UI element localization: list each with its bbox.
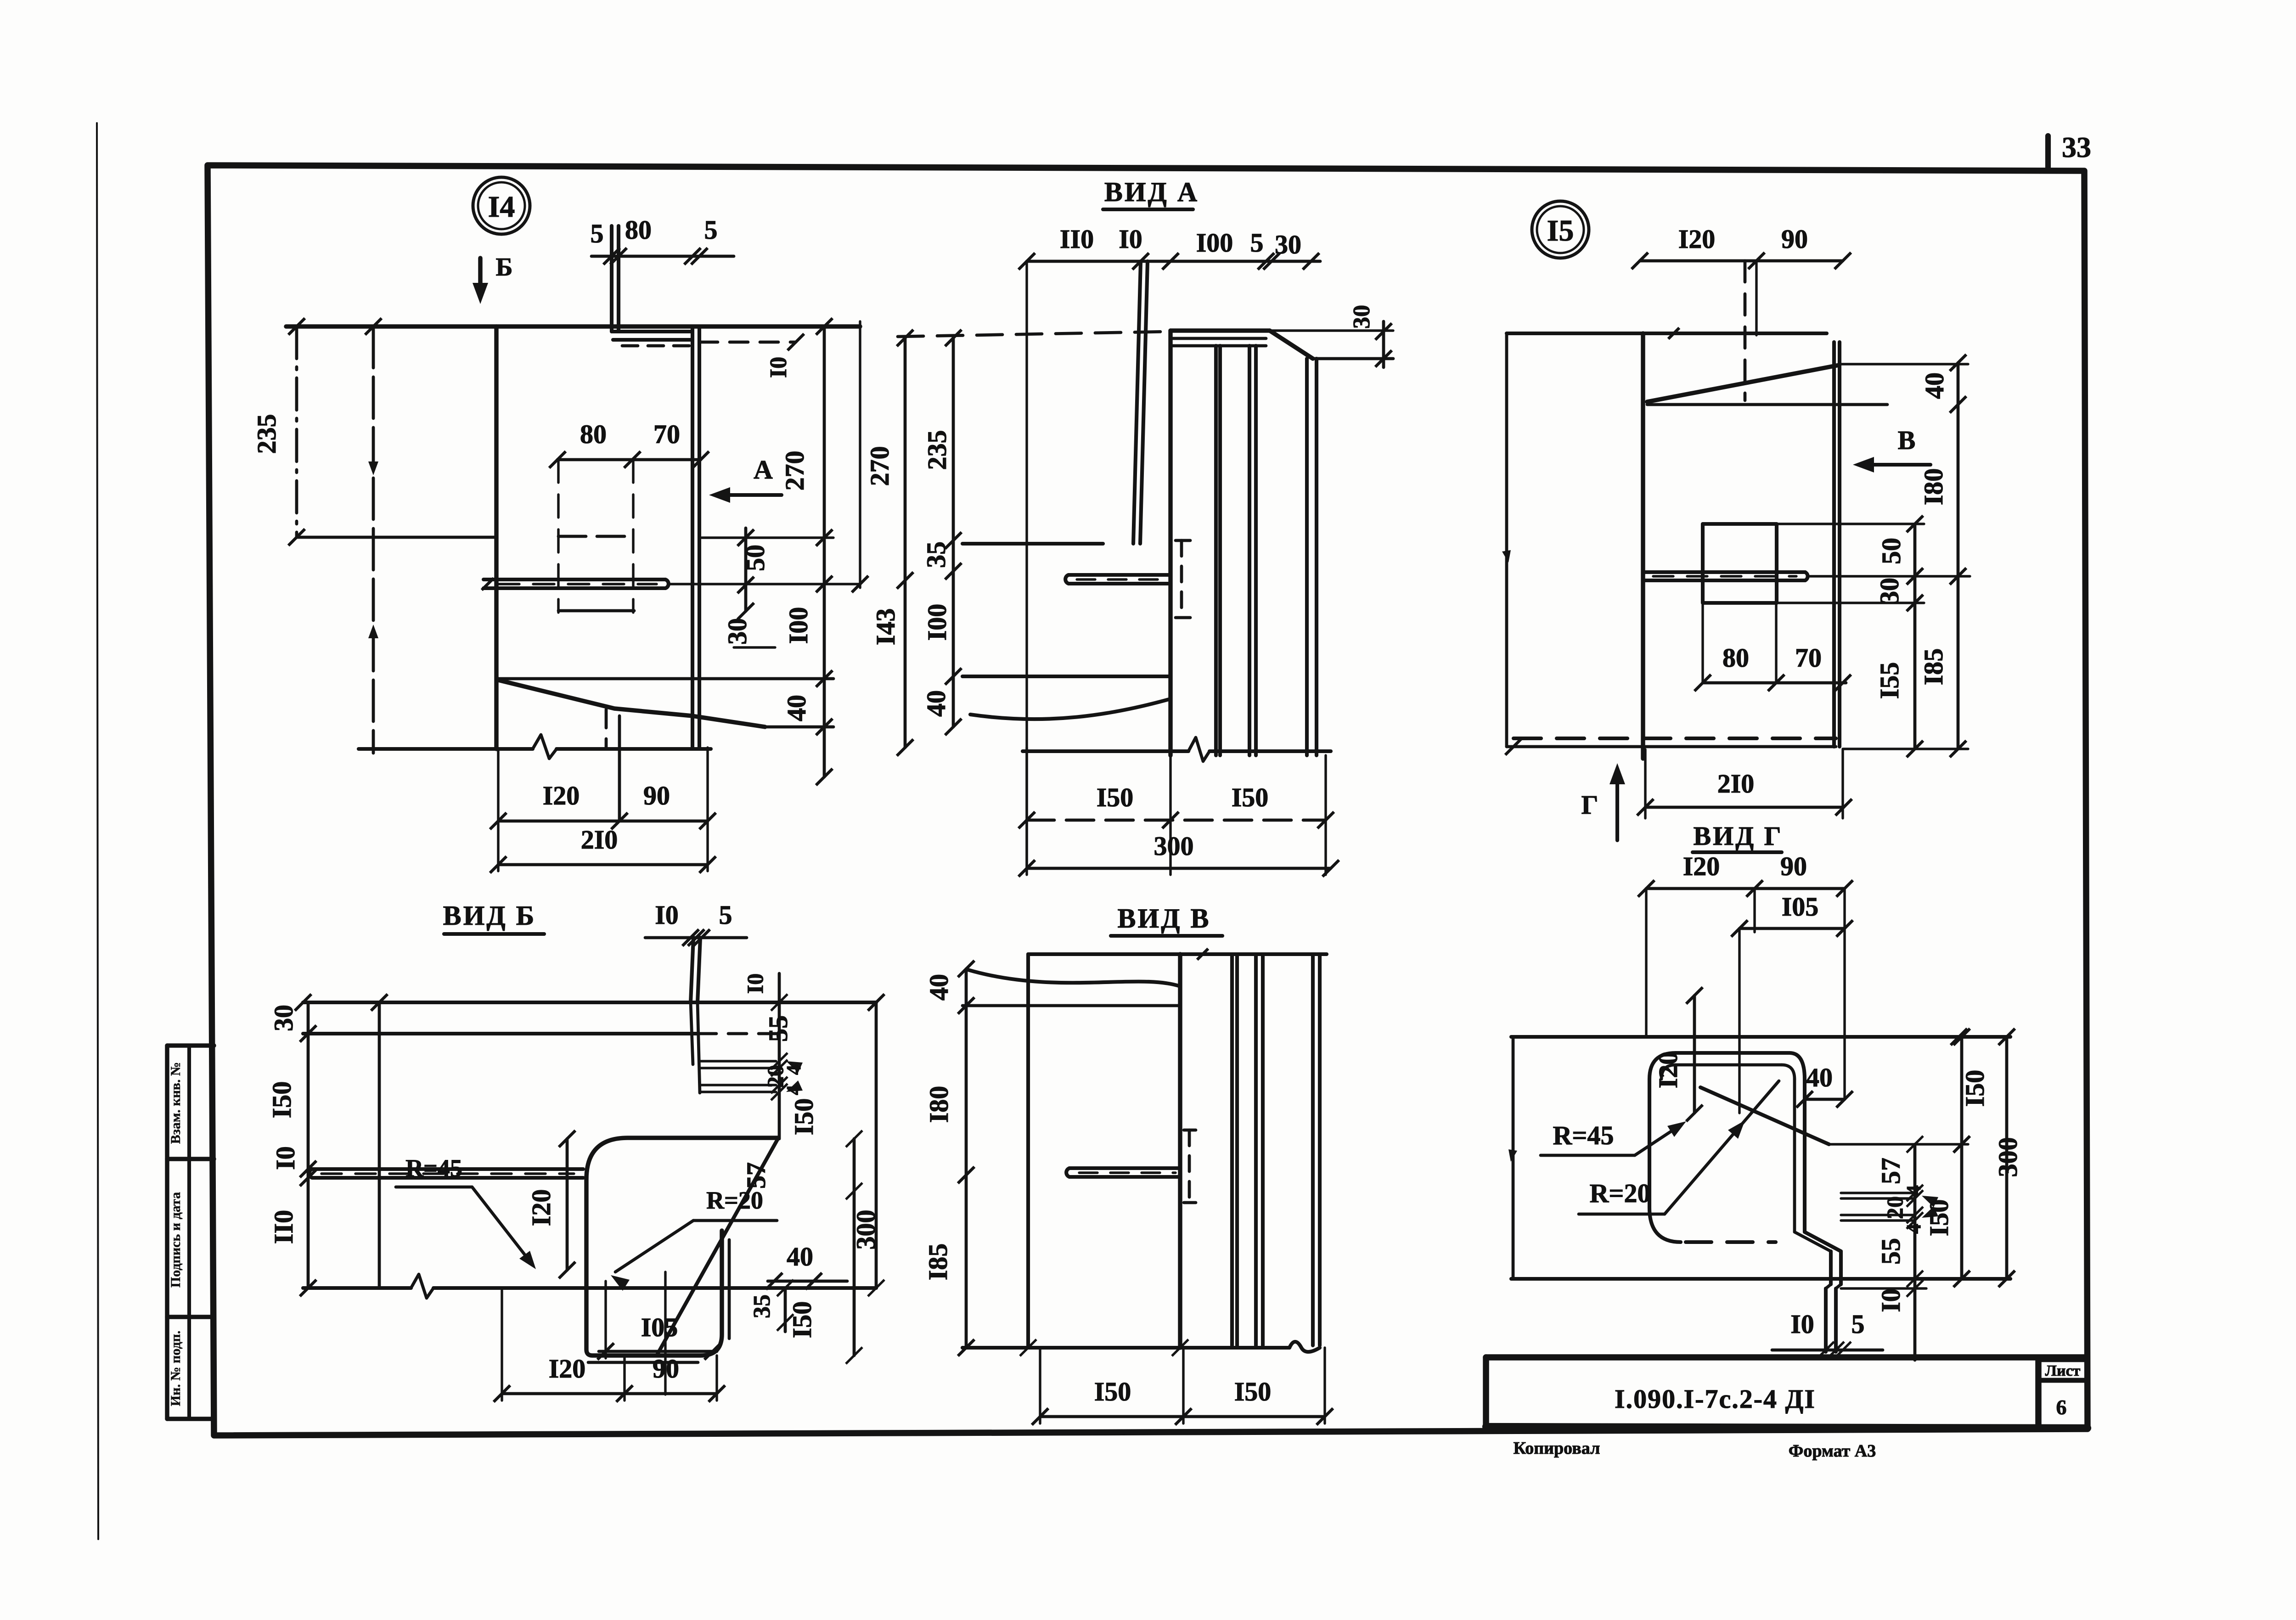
svg-text:Г: Г <box>1581 790 1598 820</box>
svg-text:I20: I20 <box>549 1354 586 1384</box>
part14 top tab vertical plate <box>610 226 613 332</box>
svg-text:5: 5 <box>1250 228 1264 258</box>
viewA channel flange 1 <box>1214 346 1218 755</box>
viewG tab jog at bottom edge <box>1826 1284 1831 1288</box>
svg-text:30: 30 <box>1275 230 1301 259</box>
svg-text:2I0: 2I0 <box>1717 769 1755 799</box>
viewB weld plates right <box>700 1060 776 1062</box>
pocket bottom extension <box>1777 602 1924 604</box>
dim line small stack right viewG <box>1913 1144 1917 1360</box>
svg-text:90: 90 <box>653 1354 679 1384</box>
viewB tab right edge double <box>728 1240 731 1339</box>
title block box <box>1483 1357 1489 1427</box>
svg-text:А: А <box>754 455 773 484</box>
viewA channel flange 2 <box>1248 346 1251 755</box>
view15 left edge <box>1641 333 1645 759</box>
viewB slope reference vertical <box>664 1272 666 1395</box>
dim 105 line viewG <box>1739 927 1845 930</box>
part14 left edge <box>494 326 498 749</box>
svg-text:I4: I4 <box>488 190 515 224</box>
view15 bottom baseline <box>1507 745 1836 748</box>
hidden pocket dashes viewA <box>1180 540 1183 618</box>
pocket extension dashed right <box>632 460 634 613</box>
viewV line under slope <box>962 1004 1180 1007</box>
extension right bottom view14 <box>706 748 709 871</box>
svg-text:I80: I80 <box>924 1086 954 1123</box>
balloon 14 circle <box>473 177 530 234</box>
viewG tab left edge <box>1648 1079 1651 1208</box>
dim line 50-30 inner right view14 <box>744 528 748 611</box>
viewG tab top-left arc <box>1649 1053 1676 1079</box>
svg-text:270: 270 <box>780 451 810 491</box>
view15 right edge double <box>1832 342 1836 747</box>
svg-text:R=45: R=45 <box>405 1154 462 1182</box>
svg-text:90: 90 <box>643 781 670 810</box>
viewV channel flange 1 <box>1230 954 1234 1345</box>
viewA lower edge horizontal <box>962 675 1171 678</box>
svg-text:50: 50 <box>1876 538 1906 564</box>
title block list cell <box>2035 1360 2042 1427</box>
part14 bottom baseline with break <box>359 747 533 751</box>
part14 right edge double line <box>691 326 694 748</box>
svg-text:Подпись и дата: Подпись и дата <box>168 1192 183 1288</box>
viewV channel flange 2 <box>1254 954 1258 1345</box>
dim line 40-180-185 view15 <box>1957 363 1960 749</box>
svg-text:40: 40 <box>1806 1063 1833 1092</box>
viewG dim extension verticals <box>1645 889 1647 1037</box>
svg-text:Взам. кнв. №: Взам. кнв. № <box>168 1062 183 1144</box>
svg-text:ВИД В: ВИД В <box>1118 903 1211 934</box>
weld plate arrow upper viewG <box>1922 1196 1938 1207</box>
viewB bottom baseline with break <box>303 1286 411 1290</box>
svg-text:I05: I05 <box>1782 892 1819 922</box>
part14 tab horizontal plate <box>612 330 692 333</box>
dim 10 tick right of tab <box>788 334 804 350</box>
dim 40 viewG <box>1805 1098 1845 1101</box>
svg-text:2I0: 2I0 <box>581 825 618 855</box>
title VID B underline <box>444 932 544 936</box>
svg-text:90: 90 <box>1781 224 1808 254</box>
viewB slope diagonal <box>657 1139 778 1356</box>
viewV right edge double <box>1311 954 1315 1345</box>
svg-text:I20: I20 <box>526 1189 556 1226</box>
anchor rod viewB <box>312 1167 583 1171</box>
viewV plate edge vertical <box>1178 954 1182 1348</box>
dim 235 bottom reference line <box>297 536 496 539</box>
left sidebar stamp boxes <box>165 1046 169 1419</box>
viewB tab bottom double line <box>588 1361 698 1364</box>
dim line 150-150 right viewG <box>1960 1037 1964 1279</box>
dim 30 bevel vertical <box>1382 321 1385 367</box>
viewG rounded tab top double <box>1676 1051 1790 1055</box>
part14 sloped cut <box>498 680 765 727</box>
svg-text:I0: I0 <box>1790 1309 1814 1339</box>
view direction arrow V <box>1858 463 1930 467</box>
svg-text:55: 55 <box>1876 1238 1906 1265</box>
svg-text:235: 235 <box>922 430 952 470</box>
dim 120-90 line view14 <box>498 820 708 823</box>
svg-text:R=45: R=45 <box>1553 1120 1614 1150</box>
dim 5-80-5 line <box>591 255 734 258</box>
svg-text:I0: I0 <box>1876 1288 1906 1312</box>
paper fold line at left margin <box>97 123 98 1539</box>
viewB tab plate double vertical <box>691 938 693 1002</box>
view15 line under slope <box>1647 403 1887 406</box>
viewA plate section lines <box>1171 337 1266 340</box>
view15 bottom hidden edge dashed <box>1514 737 1836 740</box>
dim 80-70 line view14 <box>557 458 701 461</box>
dim line 270-100-40 outer right view14 <box>823 326 826 777</box>
viewG step connector line <box>1829 1143 1968 1145</box>
rod center extension view15 <box>1810 575 1970 577</box>
anchor rod viewV <box>1069 1166 1180 1170</box>
viewA 110 extension full vertical <box>1025 261 1028 868</box>
center dashed vertical view15 <box>1744 261 1747 400</box>
svg-text:I00: I00 <box>783 607 813 644</box>
svg-text:I00: I00 <box>1196 228 1233 258</box>
svg-text:4: 4 <box>782 1065 805 1075</box>
dim 120-90 line view15 <box>1640 259 1843 263</box>
svg-text:40: 40 <box>787 1242 813 1271</box>
svg-text:300: 300 <box>851 1210 881 1250</box>
viewB second vertical <box>378 1002 381 1288</box>
svg-text:Копировал: Копировал <box>1514 1439 1600 1458</box>
viewA top edge right extension <box>1313 357 1393 360</box>
dim 120 rotated viewG <box>1693 996 1696 1113</box>
dim 300 line viewA <box>1027 867 1331 870</box>
dim line 235-35-100-40 inner left viewA <box>952 337 955 727</box>
connector slope apex to dim <box>1839 363 1968 365</box>
viewA right edge double <box>1305 359 1309 755</box>
anchor rod view14 <box>484 578 665 581</box>
viewA tab bottom edge <box>962 542 1103 546</box>
view15 sloped plate top <box>1647 365 1839 402</box>
svg-text:В: В <box>1898 425 1916 455</box>
dim 80-70 line view15 <box>1703 681 1846 685</box>
viewB tab verticals below edge <box>691 1002 693 1064</box>
svg-text:ВИД Б: ВИД Б <box>443 900 536 931</box>
dim line 300 right viewG <box>2005 1037 2009 1279</box>
viewB rounded tab outline <box>586 1138 778 1356</box>
svg-text:I0: I0 <box>655 900 679 930</box>
R45 leader viewG <box>1635 1125 1681 1155</box>
svg-text:I0: I0 <box>742 973 768 994</box>
viewV bottom edge with wave <box>962 1346 1289 1350</box>
svg-text:I0: I0 <box>765 357 792 378</box>
svg-text:5: 5 <box>1851 1309 1865 1339</box>
svg-text:I.090.I-7с.2-4 ДI: I.090.I-7с.2-4 ДI <box>1615 1384 1816 1414</box>
part14 tab hidden dashes <box>622 344 690 348</box>
dim 40 viewB <box>768 1280 847 1283</box>
extension left bottom view14 <box>497 749 499 871</box>
dim line 30-150-10-110 left viewB <box>307 1002 310 1288</box>
connector rect-top to dim <box>702 536 833 539</box>
viewG base plate left edge <box>1512 1037 1515 1279</box>
svg-text:33: 33 <box>2062 131 2091 163</box>
svg-text:270: 270 <box>865 446 895 486</box>
dim 10-5 line viewB <box>645 936 747 939</box>
viewB plate inner edge 30 <box>303 1032 698 1035</box>
viewA hidden centerline dashed <box>898 332 1171 337</box>
viewB top plate edge <box>303 1001 876 1004</box>
viewA plate left edge <box>1168 331 1172 755</box>
viewG weld plates right <box>1841 1192 1915 1194</box>
viewA bevel edge <box>1270 331 1313 359</box>
svg-text:57: 57 <box>741 1162 771 1189</box>
svg-text:30: 30 <box>269 1005 298 1031</box>
frame border <box>208 165 2088 1435</box>
hidden vertical dashed at slope <box>605 709 608 749</box>
viewA freehand slope <box>970 699 1171 719</box>
svg-text:80: 80 <box>1722 643 1749 673</box>
svg-text:I20: I20 <box>1653 1052 1683 1089</box>
connector rod center to dim <box>670 583 860 585</box>
hidden pocket dashes viewV <box>1188 1130 1191 1203</box>
viewG base plate bottom edge <box>1511 1277 2010 1281</box>
svg-text:80: 80 <box>580 419 607 449</box>
weld plate arrow lower viewB <box>786 1080 803 1092</box>
svg-text:40: 40 <box>782 695 811 721</box>
dim line right stack viewB <box>778 973 781 1139</box>
svg-text:II0: II0 <box>269 1210 298 1244</box>
svg-text:I50: I50 <box>1094 1377 1131 1406</box>
R20 leader viewG <box>1665 1081 1779 1214</box>
svg-text:I80: I80 <box>1919 468 1948 506</box>
pocket rectangle view15 <box>1703 524 1777 603</box>
extension verticals bottom viewA <box>1025 748 1028 875</box>
svg-text:I50: I50 <box>267 1081 297 1119</box>
svg-text:40: 40 <box>921 690 951 717</box>
dim line 50-30-155 view15 <box>1913 524 1917 749</box>
R45 leader viewB <box>472 1187 532 1264</box>
anchor rod viewA <box>1069 573 1171 577</box>
svg-text:I50: I50 <box>1232 782 1269 812</box>
svg-text:I50: I50 <box>1097 782 1134 812</box>
svg-text:I43: I43 <box>871 608 900 646</box>
dim line 270-143 outer left viewA <box>904 337 907 748</box>
svg-text:235: 235 <box>252 414 281 454</box>
weld plate arrow lower viewG <box>1922 1206 1938 1218</box>
solid vertical at 120-90 boundary <box>618 716 621 821</box>
svg-text:4: 4 <box>782 1085 805 1095</box>
viewA bottom baseline with break <box>1023 749 1188 753</box>
dim 120-90 line viewB <box>502 1392 717 1395</box>
view15 left extension line <box>1505 333 1508 747</box>
svg-text:Формат А3: Формат А3 <box>1789 1441 1876 1461</box>
dim 150-150 line viewV <box>1040 1415 1325 1418</box>
svg-text:I50: I50 <box>787 1301 817 1339</box>
svg-text:80: 80 <box>625 215 652 245</box>
svg-text:55: 55 <box>763 1015 793 1042</box>
anchor rod view15 <box>1643 570 1805 574</box>
svg-text:35: 35 <box>749 1294 775 1318</box>
title VID G underline <box>1693 850 1782 854</box>
svg-text:I55: I55 <box>1874 662 1904 699</box>
dim 210 line view15 <box>1645 806 1844 809</box>
center line with break arrows <box>372 326 375 753</box>
viewV bottom dim extensions <box>1039 1348 1041 1423</box>
svg-text:50: 50 <box>740 545 770 571</box>
dim 105 line viewB <box>599 1350 717 1353</box>
svg-text:5: 5 <box>591 219 604 248</box>
title VID V underline <box>1111 934 1222 938</box>
R20 leader viewB <box>615 1221 693 1272</box>
connector bottom to dim view15 <box>1843 748 1968 750</box>
svg-text:40: 40 <box>1919 372 1949 399</box>
svg-text:20: 20 <box>1882 1196 1908 1219</box>
dim line 40-180-185 left viewV <box>965 969 968 1348</box>
weld plate arrow upper viewB <box>786 1061 803 1073</box>
svg-text:I85: I85 <box>923 1243 953 1281</box>
svg-text:II0: II0 <box>1060 224 1094 254</box>
viewV freehand slope <box>968 970 1180 986</box>
balloon 15 circle <box>1532 201 1589 258</box>
svg-text:ВИД Г: ВИД Г <box>1693 821 1783 851</box>
svg-text:300: 300 <box>1993 1137 2023 1177</box>
section arrow B down <box>478 258 482 294</box>
svg-text:30: 30 <box>1874 578 1904 604</box>
dim line mid stack viewB <box>853 1139 856 1356</box>
svg-text:40: 40 <box>924 974 954 1001</box>
viewG tab bottom hidden dashed <box>1686 1240 1776 1244</box>
svg-text:ВИД А: ВИД А <box>1104 177 1199 207</box>
viewA plate top edge <box>1171 328 1270 332</box>
pocket rectangle hidden bottom <box>558 609 634 613</box>
svg-text:I50: I50 <box>789 1098 819 1136</box>
dim 105 extension viewB <box>604 1281 607 1358</box>
viewA tab plate double line <box>1133 261 1141 544</box>
svg-text:4: 4 <box>1902 1224 1925 1234</box>
viewV top edge <box>1028 952 1327 956</box>
dim 210 line view14 <box>498 863 708 866</box>
view direction arrow A <box>715 493 782 497</box>
svg-text:30: 30 <box>1349 305 1375 329</box>
svg-text:90: 90 <box>1780 851 1807 881</box>
dim 120 rotated inside viewB <box>566 1139 569 1270</box>
svg-text:I0: I0 <box>1119 224 1142 254</box>
svg-text:I50: I50 <box>1960 1070 1990 1107</box>
viewG tab bottom-left arc <box>1649 1208 1681 1242</box>
svg-text:4: 4 <box>1902 1185 1925 1195</box>
viewG tab top-right arc <box>1790 1053 1805 1079</box>
dim 35 viewB <box>784 1288 787 1332</box>
svg-text:I50: I50 <box>1924 1199 1954 1237</box>
view direction arrow G up <box>1615 771 1619 840</box>
svg-text:I85: I85 <box>1919 648 1948 686</box>
pocket extension dashed left <box>557 460 559 613</box>
dim 150-150 line viewA <box>1027 819 1326 822</box>
svg-text:30: 30 <box>722 618 752 645</box>
view15 top edge <box>1507 332 1827 335</box>
title VID A underline <box>1103 208 1193 211</box>
part14 top edge line <box>286 324 860 328</box>
viewG tab edge jog <box>1795 1232 1831 1251</box>
dim line 300 right viewB <box>875 1002 878 1288</box>
svg-text:6: 6 <box>2056 1395 2067 1419</box>
svg-text:57: 57 <box>1876 1158 1906 1184</box>
svg-text:I00: I00 <box>922 604 952 641</box>
svg-text:70: 70 <box>1795 643 1822 673</box>
svg-text:Лист: Лист <box>2045 1362 2081 1379</box>
viewB bottom dim extensions <box>501 1290 503 1401</box>
svg-text:I20: I20 <box>1683 851 1720 881</box>
viewG tab right edge double upper <box>1803 1079 1806 1232</box>
dim 235 vertical line <box>295 326 298 537</box>
viewG slope diagonal <box>1700 1087 1829 1144</box>
svg-text:70: 70 <box>653 419 680 449</box>
pocket top extension <box>1777 523 1924 525</box>
svg-text:I20: I20 <box>1678 224 1716 254</box>
svg-text:I20: I20 <box>543 781 580 810</box>
svg-text:5: 5 <box>704 215 718 245</box>
dim 10-5 bottom viewG <box>1772 1349 1883 1352</box>
dim 120-90 line viewG <box>1646 887 1845 890</box>
svg-text:R=20: R=20 <box>706 1187 763 1214</box>
dim line 110-10-100-5-30 <box>1027 260 1320 263</box>
svg-text:300: 300 <box>1154 831 1194 861</box>
pocket dim extensions view15 <box>1701 603 1704 683</box>
svg-text:Б: Б <box>495 253 512 281</box>
viewV left vertical <box>1026 954 1030 1348</box>
svg-text:I5: I5 <box>1547 214 1574 247</box>
svg-text:R=20: R=20 <box>1590 1178 1651 1208</box>
viewG tab end verticals <box>1824 1288 1828 1352</box>
viewG tab lower double vertical <box>1829 1251 1833 1284</box>
pocket rectangle hidden top <box>558 535 634 538</box>
svg-text:5: 5 <box>719 900 732 930</box>
sheet number tick top right <box>2045 136 2051 167</box>
svg-text:I05: I05 <box>641 1312 678 1342</box>
svg-text:35: 35 <box>921 541 951 568</box>
sloped cut extension to dim <box>765 726 833 729</box>
viewG base plate top edge <box>1511 1035 2010 1039</box>
svg-text:I50: I50 <box>1234 1377 1272 1406</box>
svg-text:I0: I0 <box>270 1146 300 1170</box>
part14 lower edge horizontal <box>496 677 833 681</box>
svg-text:Ин. № подп.: Ин. № подп. <box>168 1331 183 1406</box>
